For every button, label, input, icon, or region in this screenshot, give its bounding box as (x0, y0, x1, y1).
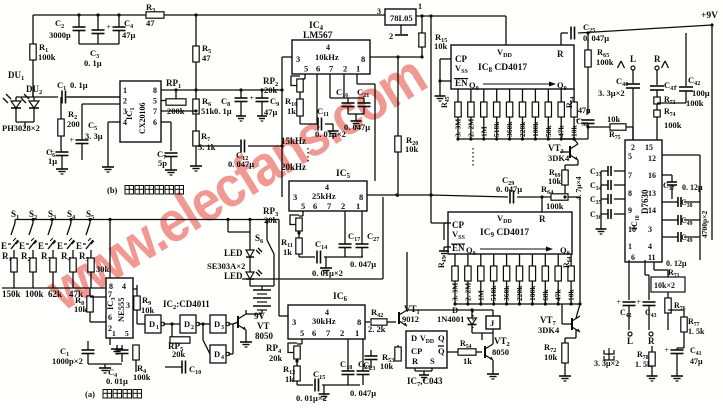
svg-text:4: 4 (123, 118, 127, 127)
svg-text:6: 6 (313, 201, 317, 211)
svg-text:0. 1μ: 0. 1μ (84, 58, 102, 68)
svg-text:20k: 20k (269, 353, 283, 363)
svg-text:3: 3 (292, 317, 296, 327)
svg-text:14: 14 (648, 206, 656, 215)
svg-text:100k: 100k (531, 121, 540, 137)
svg-text:5: 5 (628, 152, 632, 161)
svg-text:200: 200 (67, 119, 80, 129)
svg-text:+: + (250, 94, 255, 103)
svg-text:100k: 100k (546, 201, 564, 211)
svg-text:2: 2 (389, 31, 393, 41)
svg-text:9V: 9V (254, 311, 266, 321)
svg-text:47k: 47k (557, 125, 566, 138)
svg-text:5: 5 (153, 97, 157, 106)
svg-text:47: 47 (146, 18, 155, 28)
svg-text:+: + (673, 83, 678, 92)
svg-text:100k: 100k (38, 52, 56, 62)
svg-text:4. 7μ×4: 4. 7μ×4 (574, 176, 583, 200)
svg-text:LED: LED (224, 248, 243, 258)
svg-text:3: 3 (123, 107, 127, 116)
svg-text:2. 2k: 2. 2k (368, 324, 386, 334)
svg-text:6: 6 (153, 118, 157, 127)
svg-text:8: 8 (628, 189, 632, 198)
svg-text:R: R (654, 54, 661, 64)
svg-text:0. 047μ: 0. 047μ (344, 122, 370, 132)
svg-text:2: 2 (191, 325, 194, 331)
svg-text:30k: 30k (96, 264, 110, 274)
svg-text:9012: 9012 (402, 314, 419, 324)
svg-text:10k×2: 10k×2 (654, 281, 675, 290)
svg-text:S: S (430, 356, 435, 366)
svg-text:3: 3 (648, 225, 652, 234)
svg-text:D: D (184, 319, 190, 329)
svg-text:EN: EN (455, 78, 468, 88)
svg-text:360k: 360k (505, 121, 514, 137)
svg-text:+: + (617, 298, 622, 307)
svg-text:(b): (b) (107, 185, 118, 195)
svg-text:1: 1 (123, 86, 127, 95)
svg-text:2: 2 (631, 143, 635, 152)
svg-text:1M: 1M (479, 126, 488, 137)
svg-text:8050: 8050 (492, 347, 509, 357)
svg-text:E: E (1, 241, 7, 251)
svg-text:E: E (76, 241, 82, 251)
svg-text:CP: CP (411, 346, 422, 356)
svg-text:10k: 10k (607, 114, 621, 124)
svg-text:R: R (412, 356, 419, 366)
svg-text:10k: 10k (434, 41, 448, 51)
svg-text:5: 5 (304, 64, 308, 74)
svg-text:1. 5k: 1. 5k (688, 327, 705, 336)
svg-text:D: D (214, 349, 220, 359)
svg-text:D: D (149, 319, 155, 329)
svg-text:10k: 10k (74, 304, 88, 314)
svg-text:3: 3 (221, 325, 224, 331)
svg-text:1: 1 (156, 325, 159, 331)
svg-text:3DK4: 3DK4 (538, 325, 560, 335)
svg-text:100k: 100k (528, 285, 537, 301)
svg-text:LED: LED (224, 271, 243, 281)
svg-text:0. 1μ: 0. 1μ (70, 80, 88, 90)
svg-text:8: 8 (357, 317, 361, 327)
svg-text:0. 047μ: 0. 047μ (496, 184, 522, 194)
svg-text:4: 4 (221, 355, 224, 361)
svg-text:2: 2 (341, 201, 345, 211)
svg-text:LM567: LM567 (303, 31, 333, 41)
svg-text:(a): (a) (85, 389, 95, 399)
svg-text:3. 3μ: 3. 3μ (85, 131, 103, 141)
svg-text:10k: 10k (544, 352, 558, 362)
svg-text:8050: 8050 (255, 331, 274, 341)
svg-text:3DK4: 3DK4 (548, 153, 570, 163)
svg-text:5: 5 (300, 328, 304, 338)
svg-text:7: 7 (153, 107, 157, 116)
svg-text:1: 1 (418, 2, 422, 11)
svg-text:2. 2M: 2. 2M (466, 119, 475, 137)
svg-text:25kHz: 25kHz (312, 191, 336, 201)
svg-text:3. 3M: 3. 3M (454, 119, 463, 137)
svg-text:220k: 220k (518, 121, 527, 137)
svg-text:1: 1 (356, 64, 360, 74)
svg-text:58k: 58k (544, 125, 553, 138)
svg-text:78L05: 78L05 (390, 13, 413, 23)
svg-text:IC8 CD4017: IC8 CD4017 (478, 63, 527, 74)
svg-text:VT: VT (257, 321, 270, 331)
svg-text:0. 047μ: 0. 047μ (350, 388, 376, 398)
svg-text:62k: 62k (48, 289, 62, 299)
svg-text:0. 047μ: 0. 047μ (583, 33, 609, 43)
svg-text:1: 1 (112, 329, 116, 338)
svg-text:12: 12 (648, 154, 656, 163)
svg-text:10k: 10k (380, 361, 394, 371)
svg-text:0. 047μ: 0. 047μ (350, 259, 376, 269)
svg-text:1M: 1M (476, 290, 485, 301)
svg-text:100k: 100k (25, 289, 44, 299)
svg-text:1k: 1k (283, 247, 292, 257)
svg-text:1000p×2: 1000p×2 (52, 356, 83, 366)
svg-text:1N4001: 1N4001 (437, 314, 464, 324)
svg-text:E: E (38, 241, 44, 251)
svg-text:3. 3μ×2: 3. 3μ×2 (594, 359, 619, 368)
svg-text:PH3028×2: PH3028×2 (2, 123, 40, 133)
svg-text:0. 12μ: 0. 12μ (666, 259, 687, 268)
svg-text:15kHz: 15kHz (281, 136, 306, 146)
svg-text:0. 01μ×2: 0. 01μ×2 (296, 393, 327, 403)
svg-text:2: 2 (343, 64, 347, 74)
svg-text:6: 6 (631, 253, 635, 262)
svg-text:5: 5 (125, 329, 129, 338)
svg-text:Q: Q (438, 333, 445, 343)
svg-text:100k: 100k (133, 372, 151, 382)
svg-text:3000p: 3000p (49, 30, 71, 40)
svg-text:+: + (637, 298, 642, 307)
svg-text:2. 2M: 2. 2M (463, 283, 472, 301)
svg-text:51k: 51k (201, 106, 215, 116)
svg-text:1k: 1k (285, 374, 294, 384)
svg-text:13: 13 (648, 189, 656, 198)
svg-text:4: 4 (326, 43, 330, 52)
svg-text:SE303A×2: SE303A×2 (207, 261, 245, 271)
svg-text:L: L (630, 54, 636, 64)
svg-text:220k: 220k (515, 285, 524, 301)
svg-text:3. 3M: 3. 3M (451, 283, 460, 301)
svg-text:15: 15 (645, 143, 653, 152)
svg-text:4: 4 (122, 282, 126, 291)
svg-text:0. 01μ×2: 0. 01μ×2 (312, 268, 343, 278)
svg-text:20k: 20k (264, 85, 278, 95)
svg-text:7: 7 (628, 171, 632, 180)
svg-text:16: 16 (648, 171, 656, 180)
svg-text:+: + (665, 346, 670, 355)
svg-text:1: 1 (356, 201, 360, 211)
svg-text:150k: 150k (2, 289, 21, 299)
svg-text:9: 9 (628, 206, 632, 215)
svg-text:4: 4 (648, 242, 652, 251)
svg-text:8: 8 (153, 86, 157, 95)
svg-text:3: 3 (293, 192, 297, 202)
svg-text:8: 8 (361, 54, 365, 64)
svg-text:3: 3 (296, 54, 300, 64)
svg-text:1μ: 1μ (48, 156, 57, 166)
svg-text:47μ: 47μ (264, 107, 278, 117)
svg-text:10kHz: 10kHz (315, 52, 339, 62)
svg-text:6: 6 (312, 328, 316, 338)
svg-text:100k: 100k (686, 98, 704, 108)
svg-text:1: 1 (628, 242, 632, 251)
svg-text:510k: 510k (489, 285, 498, 301)
svg-text:1k: 1k (287, 106, 296, 116)
svg-text:3. 3μ×2: 3. 3μ×2 (598, 88, 625, 98)
svg-text:2: 2 (340, 328, 344, 338)
svg-text:100μ: 100μ (692, 88, 710, 98)
svg-text:47: 47 (202, 53, 211, 63)
svg-text:20k: 20k (172, 349, 186, 359)
svg-text:IC9 CD4017: IC9 CD4017 (480, 228, 529, 239)
svg-text:10k: 10k (405, 144, 419, 154)
svg-text:47μ: 47μ (122, 30, 136, 40)
svg-text:5: 5 (301, 201, 305, 211)
svg-text:E: E (57, 241, 63, 251)
svg-text:3: 3 (126, 301, 130, 310)
svg-text:4700p×2: 4700p×2 (700, 211, 709, 238)
svg-text:E: E (19, 241, 25, 251)
svg-text:7: 7 (108, 290, 112, 299)
svg-text:0. 1μ: 0. 1μ (214, 106, 232, 116)
svg-text:CX20106: CX20106 (138, 102, 147, 134)
svg-text:10: 10 (628, 225, 636, 234)
svg-text:1k: 1k (463, 356, 472, 366)
svg-text:20kHz: 20kHz (281, 162, 306, 172)
svg-text:0. 01μ: 0. 01μ (106, 376, 128, 386)
svg-text:47μ: 47μ (690, 357, 703, 366)
svg-text:2: 2 (123, 97, 127, 106)
svg-text:47μ: 47μ (578, 106, 591, 115)
svg-text:360k: 360k (502, 285, 511, 301)
svg-text:D: D (214, 319, 220, 329)
svg-text:10k: 10k (548, 176, 562, 186)
svg-text:5p: 5p (158, 158, 167, 168)
svg-text:47k: 47k (554, 289, 563, 302)
svg-text:6: 6 (316, 64, 320, 74)
svg-text:11: 11 (648, 253, 656, 262)
svg-text:0. 047μ: 0. 047μ (228, 159, 254, 169)
svg-text:100k: 100k (664, 120, 682, 130)
svg-text:R: R (557, 49, 564, 59)
svg-text:10k: 10k (567, 289, 576, 302)
svg-text:1: 1 (355, 328, 359, 338)
svg-text:6: 6 (108, 313, 112, 322)
svg-text:10k: 10k (141, 305, 155, 315)
svg-text:+: + (70, 136, 75, 145)
svg-text:100k: 100k (596, 57, 614, 67)
svg-text:5. 1k: 5. 1k (198, 142, 216, 152)
svg-text:D: D (411, 333, 417, 343)
svg-text:510k: 510k (492, 121, 501, 137)
svg-text:R: R (539, 214, 546, 224)
svg-text:10k: 10k (570, 125, 579, 138)
svg-text:Q: Q (438, 346, 445, 356)
svg-text:30kHz: 30kHz (312, 316, 336, 326)
svg-text:+: + (107, 23, 112, 32)
svg-text:NE555: NE555 (116, 297, 126, 322)
svg-text:L: L (627, 336, 633, 346)
svg-text:68k: 68k (541, 289, 550, 302)
svg-text:R: R (648, 336, 655, 346)
svg-text:+9V: +9V (701, 11, 718, 21)
svg-text:0. 01μ×2: 0. 01μ×2 (315, 129, 346, 139)
